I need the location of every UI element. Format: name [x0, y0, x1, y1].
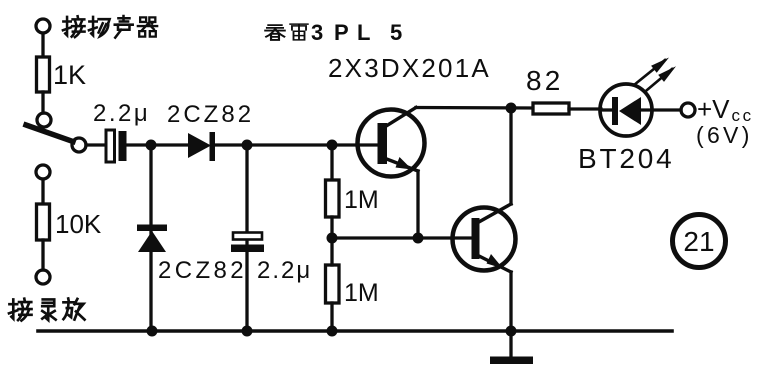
- wire J2 down: [245, 145, 248, 330]
- wire switch to C1: [86, 143, 106, 146]
- resistor R3 1M: [326, 180, 340, 217]
- switch S1 contact B: [36, 165, 50, 179]
- node J4: [506, 103, 517, 114]
- svg-text:P: P: [334, 20, 349, 45]
- svg-text:5: 5: [390, 20, 402, 45]
- svg-text:2CZ82: 2CZ82: [158, 257, 247, 284]
- svg-text:10K: 10K: [55, 209, 102, 239]
- figure number 21: [673, 215, 726, 268]
- wire D1 to Q1 base: [215, 143, 380, 146]
- ground rail: [38, 329, 672, 333]
- wire J6 to Q2 base: [332, 236, 473, 239]
- title 春雷3 P L 5: [265, 20, 402, 45]
- node J5: [413, 233, 424, 244]
- wire Q1 emitter down: [416, 171, 419, 238]
- switch S1 contact A: [37, 113, 51, 127]
- resistor R2 10K: [37, 204, 50, 240]
- transistor Q1: [358, 110, 425, 177]
- switch S1 lever arm: [26, 125, 73, 142]
- wire R5 to LED: [569, 107, 601, 110]
- resistor R1 1K: [37, 57, 50, 92]
- node J3: [327, 140, 338, 151]
- svg-text:3: 3: [311, 20, 323, 45]
- svg-text:2CZ82: 2CZ82: [167, 101, 254, 128]
- rail node D2: [147, 326, 158, 337]
- node J6: [327, 233, 338, 244]
- label 接录放: [9, 298, 85, 320]
- wire contact B to R2: [41, 179, 44, 204]
- node J1: [146, 140, 157, 151]
- wire J4 down: [509, 108, 512, 204]
- capacitor C2 2.2u electrolytic: [233, 233, 262, 240]
- wire R3 to J6: [330, 217, 333, 238]
- switch S1 pole contact: [72, 138, 86, 152]
- svg-text:2.2μ: 2.2μ: [93, 100, 150, 127]
- wire terminal to R1: [41, 33, 44, 57]
- terminal +Vcc: [681, 103, 695, 117]
- svg-text:L: L: [357, 20, 370, 45]
- svg-text:1M: 1M: [344, 186, 379, 214]
- wire J6 to R4: [330, 238, 333, 265]
- diode D2 2CZ82 vertical: [137, 225, 167, 232]
- wire J1 down: [149, 145, 152, 330]
- terminal record bottom: [36, 270, 50, 284]
- wire C1 to D1: [127, 143, 189, 146]
- svg-text:2.2μ: 2.2μ: [257, 257, 312, 284]
- svg-text:21: 21: [683, 226, 714, 257]
- resistor R5 82: [533, 103, 569, 114]
- wire J3 down to R3: [330, 145, 333, 180]
- diode D1 2CZ82: [188, 133, 211, 158]
- LED arrows: [634, 60, 672, 90]
- capacitor C1 2.2u: [106, 130, 115, 162]
- svg-text:82: 82: [526, 65, 564, 96]
- wire R2 to terminal: [41, 240, 44, 270]
- svg-text:BT204: BT204: [578, 143, 675, 174]
- ground symbol: [509, 331, 512, 357]
- rail node R4: [327, 326, 338, 337]
- svg-text:1K: 1K: [53, 60, 86, 90]
- transistor Q2: [453, 208, 516, 271]
- rail node C2: [242, 326, 253, 337]
- svg-text:2X3DX201A: 2X3DX201A: [328, 53, 491, 83]
- svg-text:(6V): (6V): [696, 122, 753, 148]
- svg-text:1M: 1M: [344, 279, 379, 307]
- resistor R4 1M: [326, 265, 340, 303]
- wire Q2 emitter to rail: [509, 272, 512, 331]
- LED D3 BT204: [600, 84, 652, 136]
- node J2: [242, 140, 253, 151]
- wire R4 to rail: [330, 303, 333, 330]
- wire R1 to switch: [41, 92, 44, 113]
- label 接扬声器: [63, 16, 157, 38]
- terminal speaker top: [36, 19, 50, 33]
- rail node Q2 emitter: [506, 326, 517, 337]
- wire Q1 collector top rail: [416, 106, 533, 110]
